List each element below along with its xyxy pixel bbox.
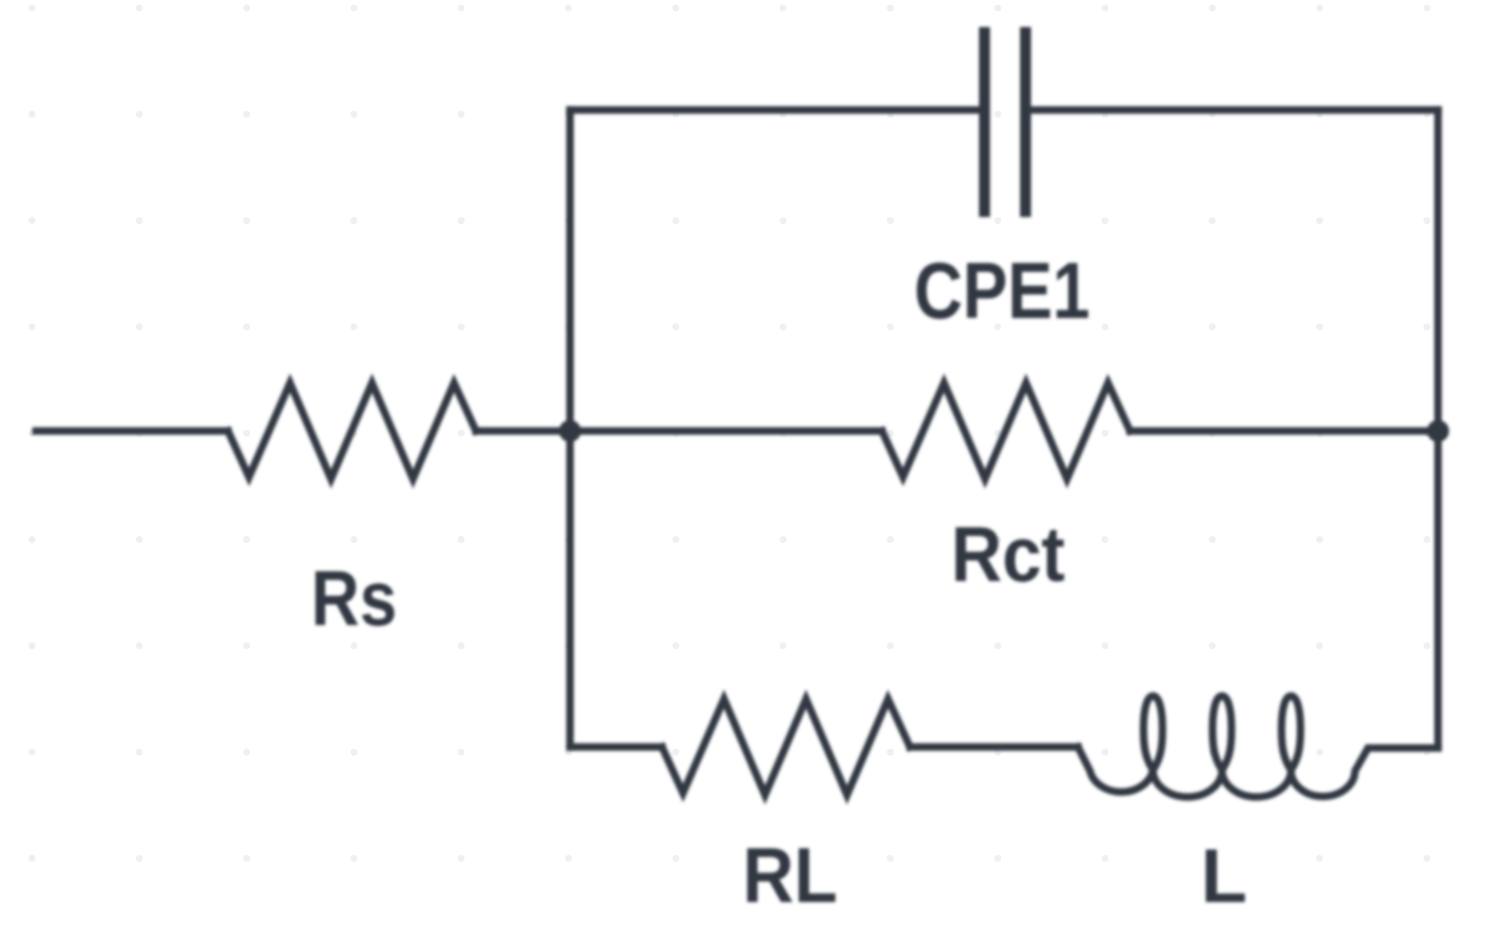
svg-text:L: L bbox=[1201, 834, 1247, 919]
svg-text:CPE1: CPE1 bbox=[914, 246, 1090, 335]
svg-text:RL: RL bbox=[743, 831, 838, 919]
svg-text:Rct: Rct bbox=[951, 510, 1065, 598]
svg-text:Rs: Rs bbox=[311, 554, 397, 642]
